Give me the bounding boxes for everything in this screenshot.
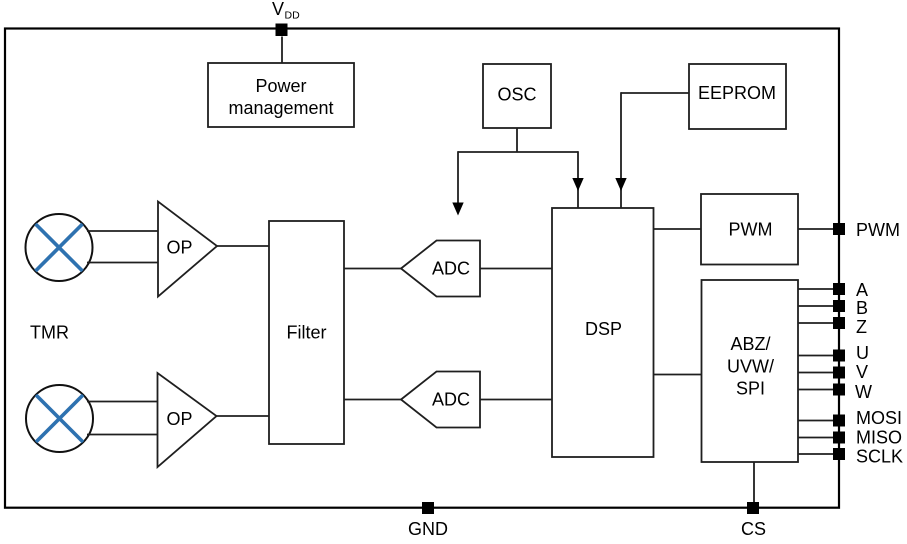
svg-text:ADC: ADC — [432, 390, 470, 410]
ADC1 converter — [401, 241, 480, 297]
svg-text:U: U — [856, 343, 869, 363]
svg-text:SCLK: SCLK — [856, 447, 903, 467]
svg-text:MOSI: MOSI — [856, 408, 902, 428]
svg-text:MISO: MISO — [856, 428, 902, 448]
svg-text:SPI: SPI — [736, 379, 765, 399]
wire ABZ to pin A — [798, 288, 839, 290]
arrowhead EEPROM to DSP — [615, 178, 626, 191]
pin CS — [741, 502, 766, 539]
svg-text:UVW/: UVW/ — [727, 357, 774, 377]
ADC2 converter — [401, 372, 480, 428]
wire ABZ to pin U — [798, 355, 839, 357]
svg-text:DD: DD — [285, 10, 301, 22]
wire sensor2 to OP2 (upper) — [87, 401, 158, 403]
svg-text:ABZ/: ABZ/ — [730, 334, 770, 354]
wire VDD to Power management — [281, 37, 283, 64]
pin SCLK — [833, 447, 903, 467]
pin MOSI — [833, 408, 902, 428]
block Filter — [269, 221, 344, 444]
svg-text:OP: OP — [166, 409, 192, 429]
block PWM — [701, 194, 798, 265]
svg-text:A: A — [856, 280, 868, 300]
svg-text:CS: CS — [741, 519, 766, 539]
svg-text:ADC: ADC — [432, 259, 470, 279]
svg-text:TMR: TMR — [30, 323, 69, 343]
svg-text:Filter: Filter — [287, 323, 327, 343]
op-amp OP2 — [158, 373, 217, 467]
wire ABZ to pin SCLK — [798, 453, 839, 455]
wire ADC1 to DSP — [480, 268, 552, 270]
svg-text:Power: Power — [255, 76, 306, 96]
pin A — [833, 280, 868, 300]
wire ABZ to pin MOSI — [798, 420, 839, 422]
wire ABZ to pin Z — [798, 322, 839, 324]
pin VDD — [272, 0, 300, 36]
wire OSC clock distribution — [458, 128, 578, 208]
pin V — [833, 362, 868, 382]
wire DSP to ABZ/UVW/SPI block — [654, 374, 702, 376]
svg-text:V: V — [272, 0, 284, 19]
wire EEPROM to DSP — [621, 92, 689, 208]
svg-text:V: V — [856, 362, 868, 382]
svg-text:PWM: PWM — [856, 220, 900, 240]
svg-text:GND: GND — [408, 519, 448, 539]
block EEPROM — [689, 64, 786, 129]
wire DSP to PWM block — [654, 228, 702, 230]
pin GND — [408, 502, 448, 539]
wire ABZ to pin W — [798, 389, 839, 391]
pin PWM — [833, 220, 900, 240]
svg-text:PWM: PWM — [729, 220, 773, 240]
pin U — [833, 343, 869, 363]
wire ABZ to pin B — [798, 305, 839, 307]
arrowhead OSC to ADC — [452, 203, 463, 216]
TMR sensor bridge 1 — [26, 214, 93, 281]
TMR sensor bridge 2 — [26, 385, 93, 452]
op-amp OP1 — [158, 202, 217, 297]
wire Filter to ADC2 — [344, 399, 401, 401]
block OSC — [483, 64, 551, 128]
block Power management — [208, 63, 354, 127]
wire sensor1 to OP1 (lower) — [87, 262, 158, 264]
svg-text:EEPROM: EEPROM — [698, 83, 776, 103]
svg-text:Z: Z — [856, 317, 867, 337]
block ABZ/UVW/SPI — [702, 280, 799, 462]
block DSP — [552, 208, 654, 457]
wire ADC2 to DSP — [480, 399, 552, 401]
svg-text:W: W — [855, 382, 872, 402]
wire ABZ to CS pin — [753, 462, 755, 507]
wire ABZ to pin MISO — [798, 437, 839, 439]
pin B — [833, 298, 868, 318]
svg-text:OP: OP — [166, 238, 192, 258]
wire sensor1 to OP1 (upper) — [87, 230, 158, 232]
svg-text:OSC: OSC — [497, 85, 536, 105]
wire ABZ to pin V — [798, 372, 839, 374]
wire Filter to ADC1 — [344, 268, 401, 270]
wire PWM block to PWM pin — [798, 228, 839, 230]
wire sensor2 to OP2 (lower) — [87, 434, 158, 436]
svg-text:B: B — [856, 298, 868, 318]
pin Z — [833, 317, 867, 337]
pin MISO — [833, 428, 902, 448]
wire OP2 to Filter — [217, 415, 270, 417]
svg-text:DSP: DSP — [585, 319, 622, 339]
wire OP1 to Filter — [217, 245, 269, 247]
arrowhead OSC to DSP — [572, 178, 583, 191]
pin W — [833, 382, 872, 402]
svg-text:management: management — [228, 98, 333, 118]
